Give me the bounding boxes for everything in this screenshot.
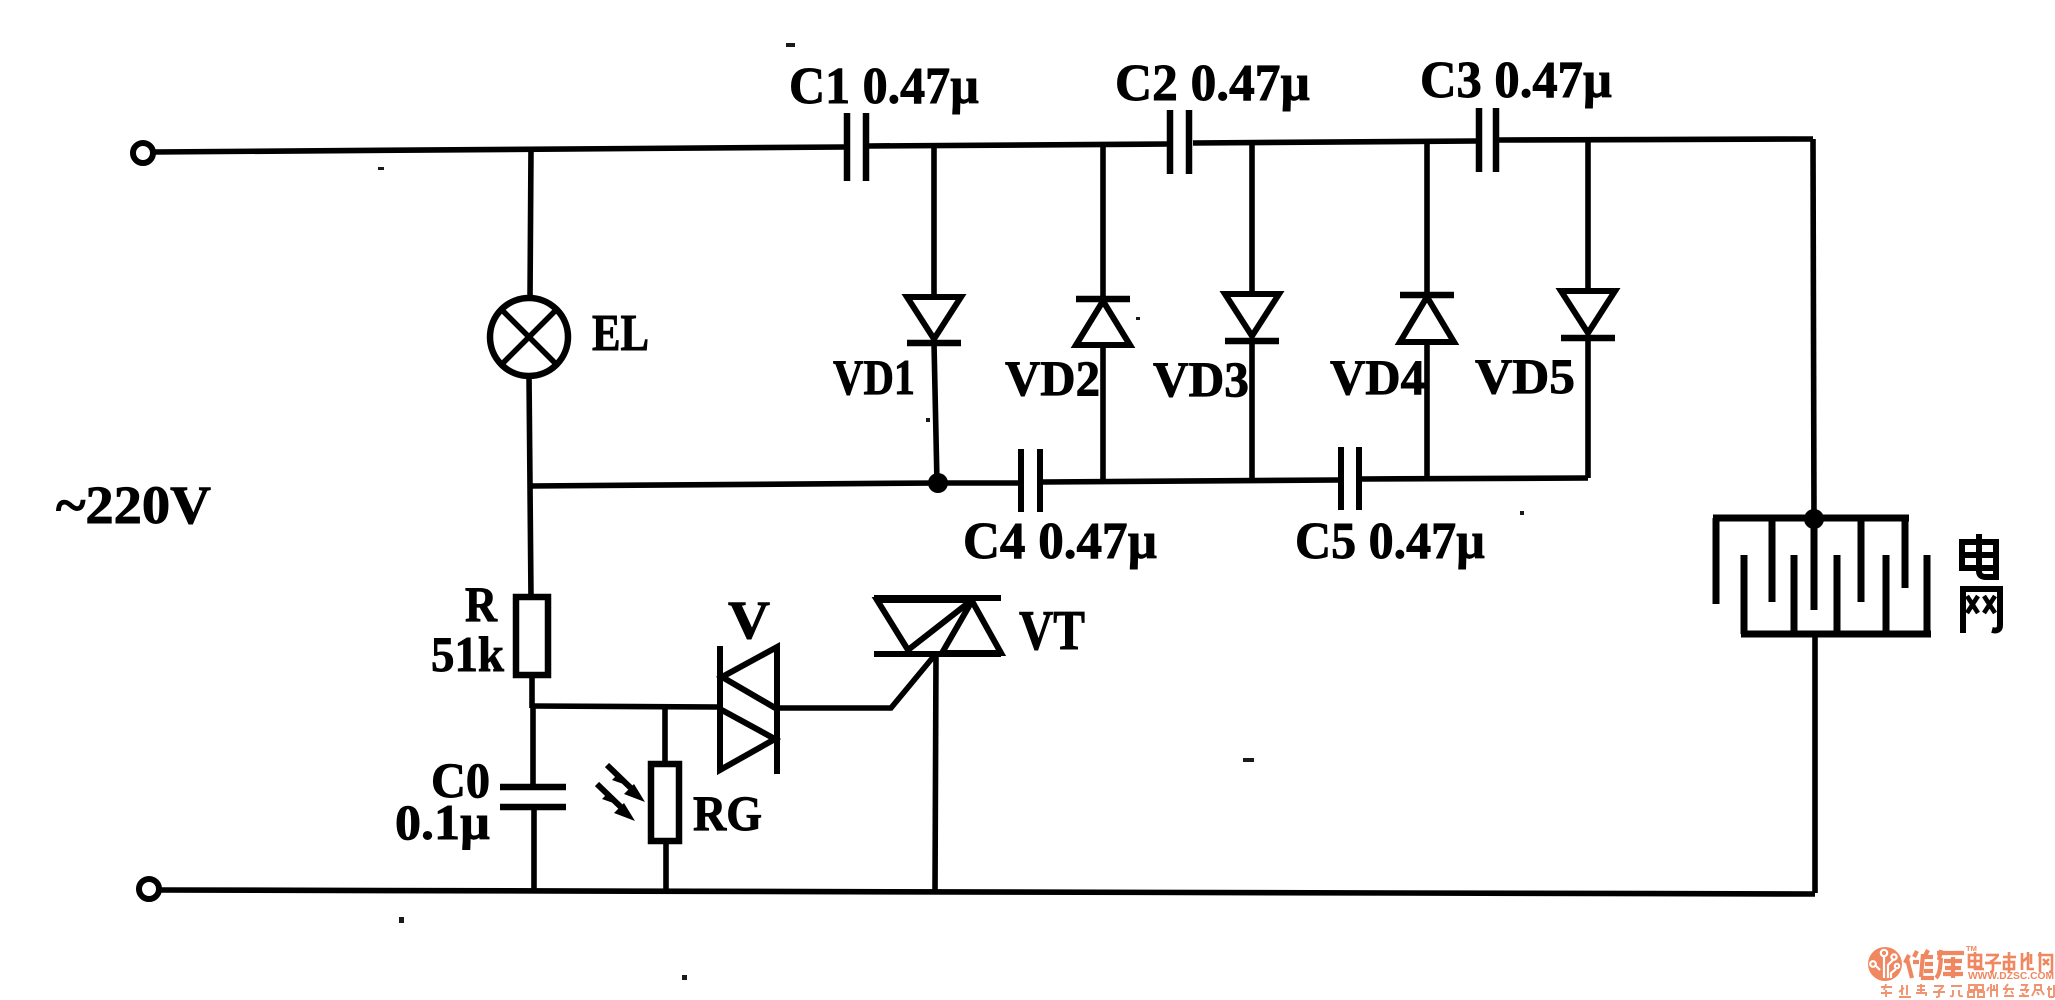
label ~220V xyxy=(56,475,211,535)
watermark url xyxy=(1968,970,2054,982)
wire top segment 2 xyxy=(869,144,1169,146)
label VD2 xyxy=(1005,350,1100,406)
wire RG to bottom xyxy=(663,841,669,892)
wire VD4 bottom xyxy=(1424,342,1430,479)
wire VD2 bottom xyxy=(1100,345,1106,481)
svg-text:C3 0.47µ: C3 0.47µ xyxy=(1420,52,1612,109)
svg-text:WWW.DZSC.COM: WWW.DZSC.COM xyxy=(1968,970,2054,982)
wire mid junction to resistor xyxy=(530,486,531,597)
lamp EL xyxy=(490,298,568,376)
svg-text:VD5: VD5 xyxy=(1475,348,1575,404)
wire diac to triac gate xyxy=(777,656,934,708)
terminal bottom-left xyxy=(139,879,159,899)
wire RG branch upper xyxy=(662,706,668,765)
wire top segment 4 xyxy=(1499,139,1813,140)
label C0 value 0.1u xyxy=(395,794,490,850)
label R value 51k xyxy=(431,626,504,682)
svg-text:VD4: VD4 xyxy=(1330,349,1425,405)
wire VD4 top xyxy=(1424,142,1430,297)
svg-text:0.1µ: 0.1µ xyxy=(395,794,490,850)
wire C0 to bottom xyxy=(531,807,537,891)
label C4 value xyxy=(963,513,1157,570)
svg-text:C5 0.47µ: C5 0.47µ xyxy=(1295,513,1485,570)
wire bottom xyxy=(159,890,1815,894)
wire resistor to gate junction xyxy=(529,675,535,708)
watermark title weiku xyxy=(1905,950,1964,978)
diode VD5 xyxy=(1561,291,1615,338)
capacitor C2 xyxy=(1170,110,1189,174)
wire VD3 bottom xyxy=(1249,341,1255,480)
svg-text:VD3: VD3 xyxy=(1153,351,1249,407)
wire top segment 1 xyxy=(153,147,844,152)
diode VD2 xyxy=(1076,299,1130,345)
photoresistor RG xyxy=(651,764,679,841)
wire gate junction to C0 xyxy=(530,706,536,787)
capacitor C5 xyxy=(1341,447,1359,510)
label VD1 xyxy=(833,349,915,405)
light arrow 2 xyxy=(597,784,635,821)
wire triac below xyxy=(935,654,936,892)
label C0 xyxy=(431,752,490,808)
wire VD5 bottom xyxy=(1585,338,1591,478)
resistor R 51k xyxy=(516,597,548,675)
watermark logo circle xyxy=(1868,947,1902,981)
wire VD5 top xyxy=(1585,141,1591,292)
svg-text:C4 0.47µ: C4 0.47µ xyxy=(963,513,1157,570)
wire lamp to mid xyxy=(529,375,530,486)
wire VD1 top xyxy=(931,146,937,298)
wire gate horizontal xyxy=(532,706,718,707)
svg-text:V: V xyxy=(728,590,770,650)
wire right vertical lower xyxy=(1812,634,1818,893)
label VD3 xyxy=(1153,351,1249,407)
svg-text:RG: RG xyxy=(693,785,762,841)
svg-text:VD2: VD2 xyxy=(1005,350,1100,406)
label C2 value xyxy=(1115,55,1310,112)
node junction at power grid top xyxy=(1804,509,1824,529)
svg-text:R: R xyxy=(465,576,498,632)
label C1 value xyxy=(789,58,979,115)
wire VD1 to node xyxy=(934,343,937,483)
svg-text:TM: TM xyxy=(1966,944,1977,953)
wire mid segment 3 xyxy=(1362,478,1588,479)
wire node to C4 xyxy=(938,480,1018,486)
wire right vertical upper xyxy=(1813,139,1814,520)
svg-text:~220V: ~220V xyxy=(56,475,211,535)
svg-text:EL: EL xyxy=(592,305,649,362)
label VT xyxy=(1019,600,1085,662)
wire mid left xyxy=(530,483,938,486)
wire mid segment 2 xyxy=(1043,480,1338,482)
svg-text:51k: 51k xyxy=(431,626,504,682)
svg-text:C2 0.47µ: C2 0.47µ xyxy=(1115,55,1310,112)
power grid symbol (electrodes) xyxy=(1713,518,1931,634)
diode VD3 xyxy=(1225,294,1279,341)
wire lamp branch upper xyxy=(530,149,531,300)
label R xyxy=(465,576,498,632)
light arrow 1 xyxy=(607,765,645,802)
capacitor C1 xyxy=(847,113,866,181)
diode VD1 xyxy=(907,297,961,343)
label C3 value xyxy=(1420,52,1612,109)
label V xyxy=(728,590,770,650)
capacitor C3 xyxy=(1479,108,1496,172)
wire VD3 top xyxy=(1249,144,1255,295)
label VD4 xyxy=(1330,349,1425,405)
label dian-wang (power grid) xyxy=(1962,534,2000,633)
watermark TM xyxy=(1966,944,1977,953)
svg-text:C1 0.47µ: C1 0.47µ xyxy=(789,58,979,115)
capacitor C4 xyxy=(1021,449,1040,512)
triac VT xyxy=(874,598,1001,654)
wire top segment 3 xyxy=(1193,141,1476,143)
watermark subtitle row xyxy=(1969,952,2052,972)
svg-text:VT: VT xyxy=(1019,600,1085,662)
label EL xyxy=(592,305,649,362)
watermark tagline row xyxy=(1881,984,2054,997)
label C5 value xyxy=(1295,513,1485,570)
svg-text:VD1: VD1 xyxy=(833,349,915,405)
diode VD4 xyxy=(1400,295,1454,342)
diac V xyxy=(720,646,777,774)
node junction mid xyxy=(928,473,948,493)
label RG xyxy=(693,785,762,841)
label VD5 xyxy=(1475,348,1575,404)
capacitor C0 xyxy=(500,787,566,807)
wire VD2 top xyxy=(1100,145,1106,300)
terminal top-left xyxy=(133,143,153,163)
